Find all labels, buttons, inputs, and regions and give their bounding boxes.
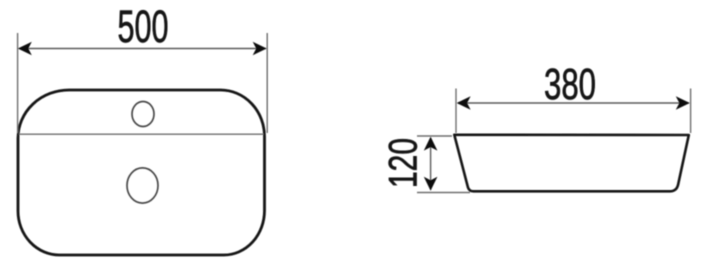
dimension 380: right arrowhead (676, 96, 690, 110)
dimension 500: left extension line (17, 33, 19, 133)
dimension 500: right arrowhead (253, 42, 267, 56)
deck line (inner basin edge, top view) (19, 133, 264, 135)
faucet hole (small circle) (132, 102, 154, 127)
dimension 380: left extension line (455, 89, 457, 134)
svg-text:500: 500 (118, 1, 169, 52)
dimension 500: right extension line (266, 33, 268, 133)
dimension 380: left arrowhead (457, 96, 471, 110)
svg-text:120: 120 (381, 138, 425, 188)
dimension 120: top extension line (417, 135, 452, 137)
sink basin outline (top view) (18, 90, 265, 255)
dimension 120: bottom extension line (417, 192, 470, 194)
dimension 500: left arrowhead (18, 42, 32, 56)
dimension 120: down arrowhead (424, 177, 438, 191)
side view: vessel profile (trapezoid) (454, 135, 689, 192)
drain hole (large circle) (127, 168, 158, 203)
dimension 380: right extension line (690, 89, 692, 134)
dimension 120: dimension line (430, 138, 432, 190)
svg-text:380: 380 (544, 61, 596, 109)
dimension 120: up arrowhead (424, 137, 438, 151)
dimension 380: dimension line (458, 102, 689, 104)
dimension 500: dimension line (19, 48, 266, 50)
